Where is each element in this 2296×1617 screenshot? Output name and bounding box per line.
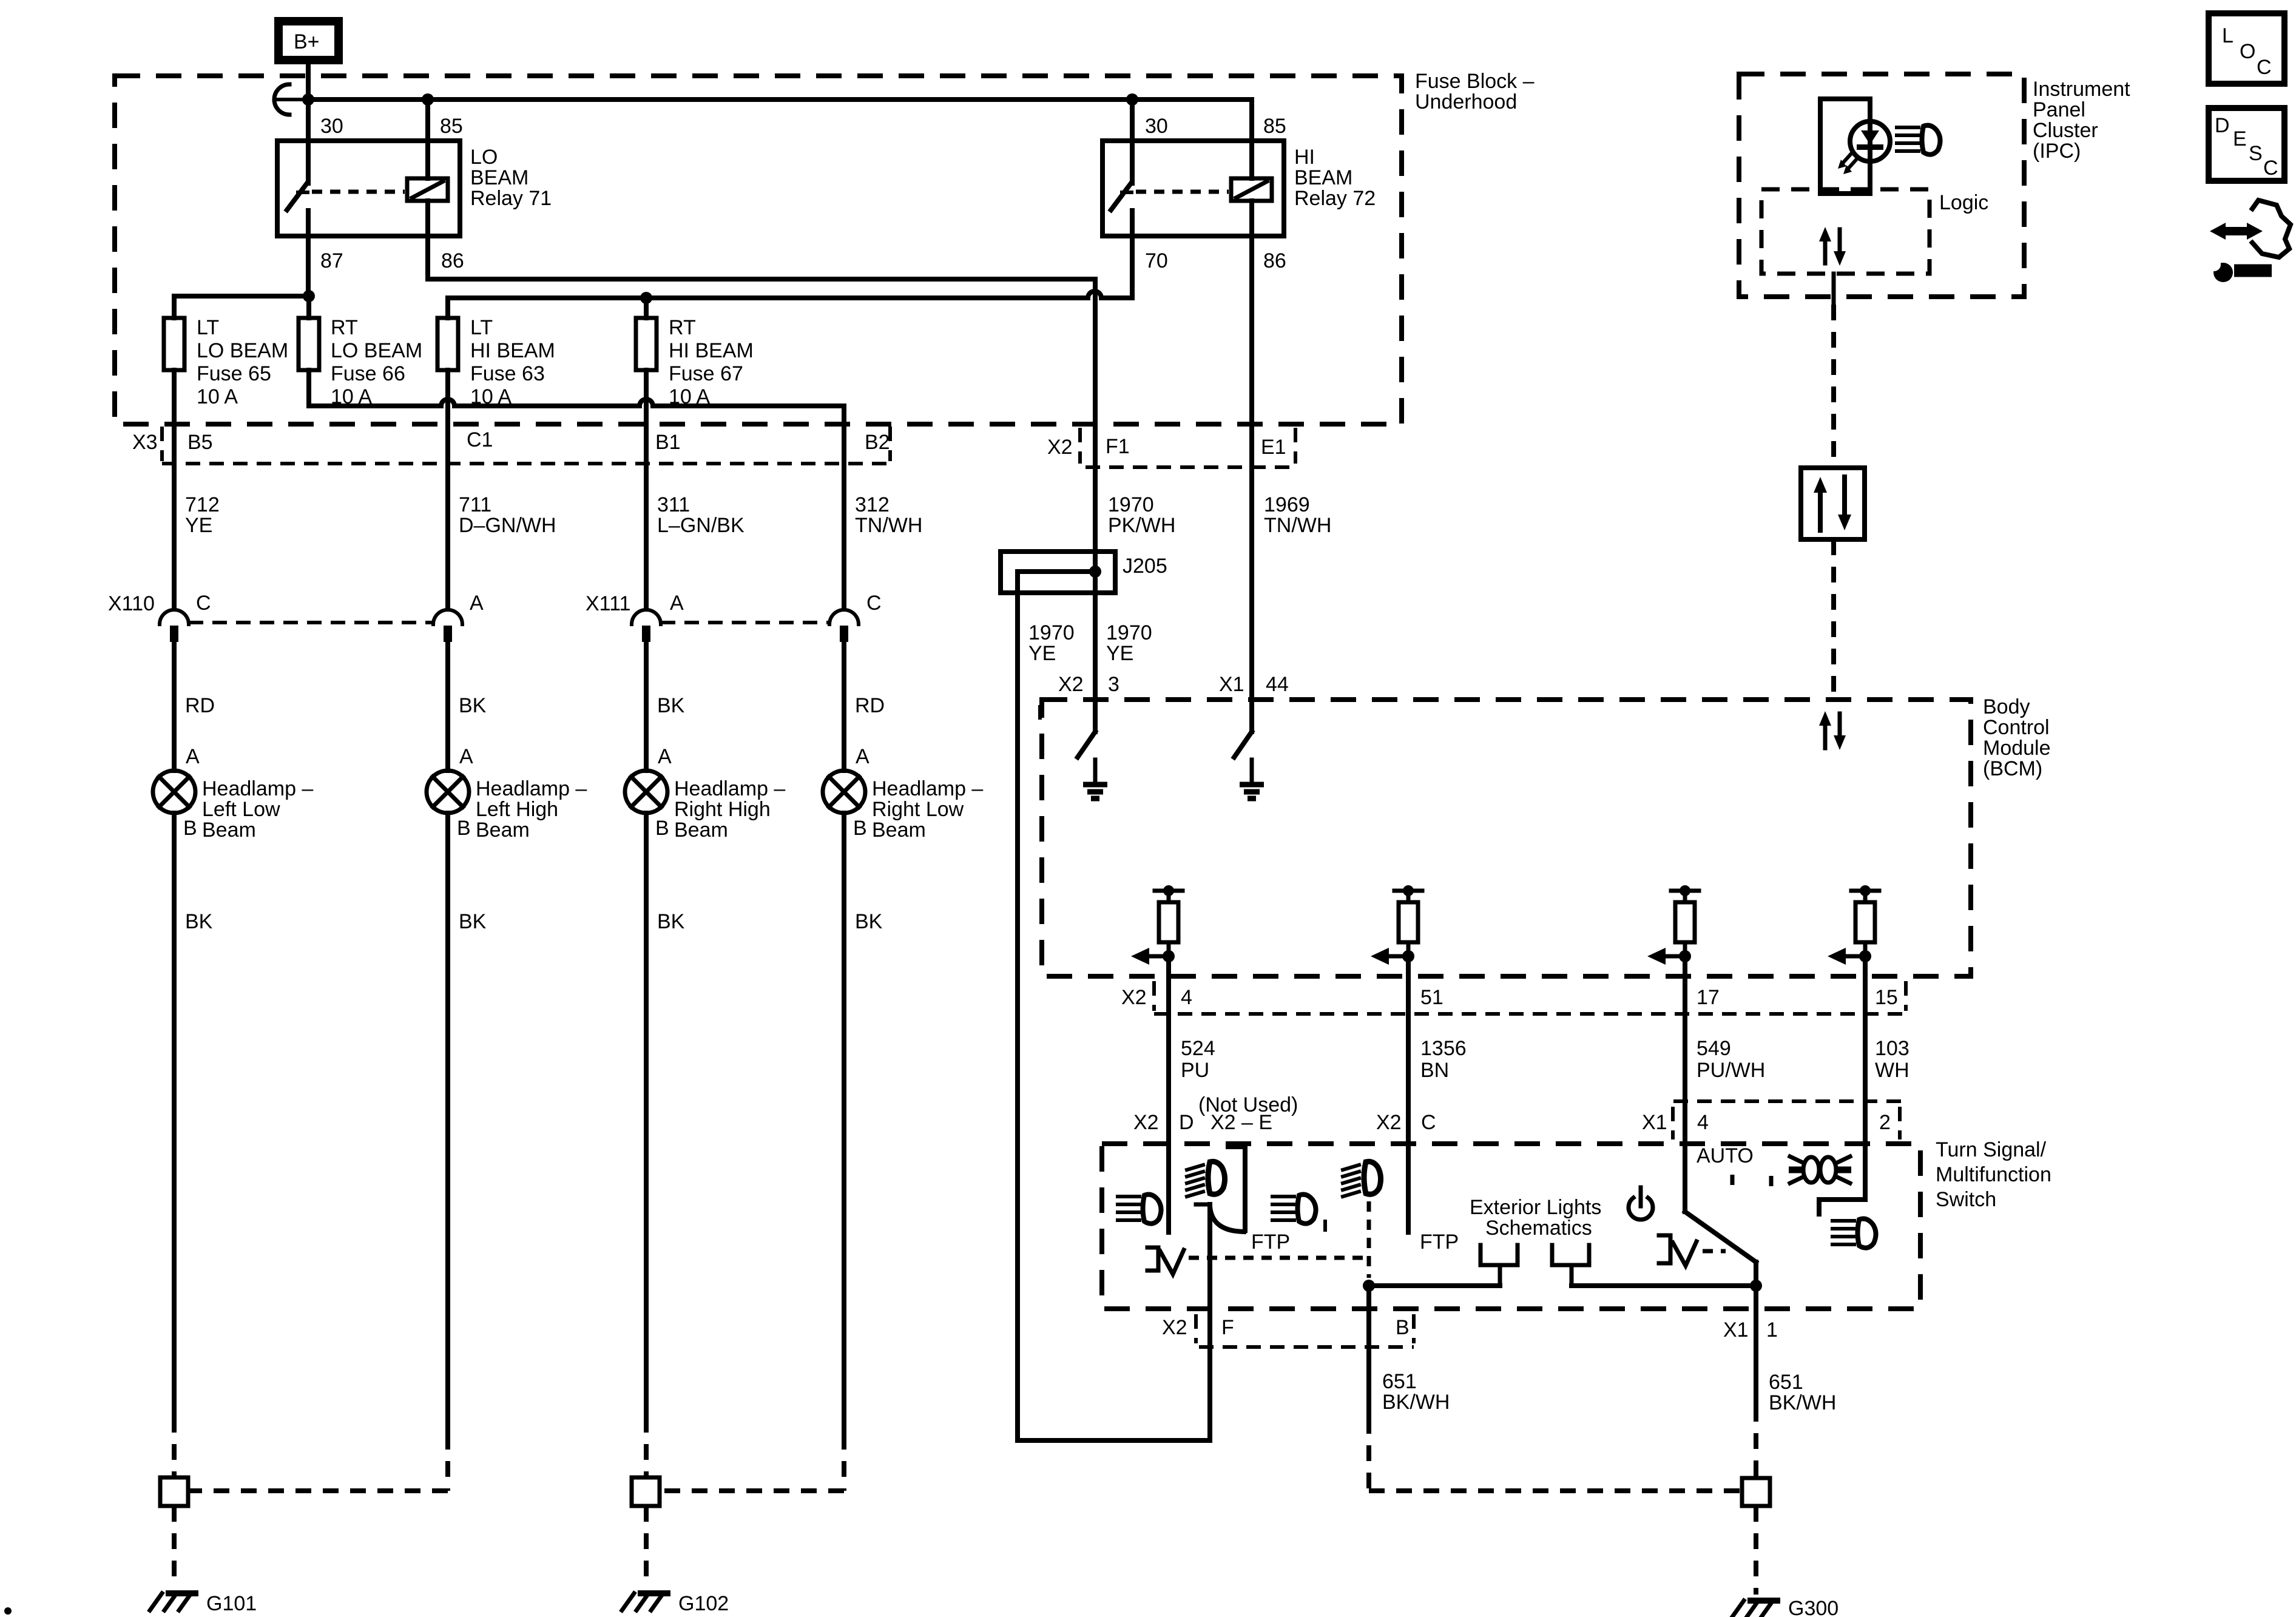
fuse 67 RT HI BEAM [636,318,657,370]
svg-text:RT: RT [331,316,358,339]
svg-text:15: 15 [1875,986,1898,1009]
svg-text:B+: B+ [294,30,320,53]
svg-text:X2: X2 [1121,986,1147,1009]
svg-text:Beam: Beam [872,819,926,842]
svg-text:E1: E1 [1261,436,1286,459]
switch low beam driver to ground [1078,700,1107,798]
resistor pull-up 524 [1131,885,1183,965]
svg-text:C1: C1 [467,428,493,451]
svg-text:A: A [856,745,869,768]
svg-text:F1: F1 [1106,435,1130,458]
LOC legend box [2209,13,2284,84]
svg-text:3: 3 [1108,673,1119,696]
svg-text:87: 87 [320,249,343,272]
svg-text:C: C [2257,56,2272,79]
resistor pull-up 1356 [1371,885,1422,965]
high beam telltale icon [1897,126,1940,155]
svg-text:PK/WH: PK/WH [1108,514,1175,537]
svg-text:BK: BK [459,910,487,933]
svg-text:4: 4 [1697,1111,1709,1134]
svg-text:TN/WH: TN/WH [855,514,922,537]
wire auto wiper diagonal [1685,1212,1756,1262]
svg-text:Fuse 63: Fuse 63 [470,362,545,385]
node relay71 85 junction [422,93,434,106]
svg-text:30: 30 [320,115,343,138]
svg-text:LO BEAM: LO BEAM [331,339,422,362]
svg-text:A: A [459,745,473,768]
svg-text:711: 711 [459,493,491,516]
wire headlamp feeds below connectors [172,642,177,771]
svg-text:Fuse 66: Fuse 66 [331,362,405,385]
svg-text:FTP: FTP [1251,1230,1290,1254]
svg-text:Panel: Panel [2033,98,2085,121]
svg-text:Headlamp –: Headlamp – [476,777,587,800]
svg-text:B: B [853,817,867,840]
icon turn signal flash [1789,1156,1851,1183]
svg-text:524: 524 [1181,1037,1215,1060]
svg-text:(BCM): (BCM) [1983,757,2042,780]
svg-text:1356: 1356 [1420,1037,1467,1060]
svg-text:Module: Module [1983,737,2051,760]
svg-text:Left High: Left High [476,798,558,821]
svg-text:X2: X2 [1133,1111,1159,1134]
svg-text:D: D [1179,1111,1194,1134]
svg-text:X1: X1 [1723,1318,1749,1342]
fuse 65 LT LO BEAM [164,318,184,370]
contact E not used [1228,1147,1245,1230]
wire relay72 86 to underhood X2 E1 / BCM X1 44 [1249,236,1254,700]
contact FTP flash-to-pass [1147,1247,1158,1271]
svg-text:BEAM: BEAM [1294,166,1352,189]
svg-text:B5: B5 [187,431,213,454]
fuse 66 RT LO BEAM [299,318,319,370]
headlamp Left High Beam [427,771,469,813]
wire fuse67 output [644,370,649,609]
svg-text:X2: X2 [1047,436,1073,459]
wire 524 PU [1166,956,1171,1232]
svg-text:(IPC): (IPC) [2033,140,2081,163]
svg-text:X2: X2 [1376,1111,1402,1134]
wire fuse63 output [445,370,450,609]
wire 103 WH contact and park lamp icon [1819,1197,1865,1202]
svg-text:712: 712 [185,493,220,516]
contact auto switch [1659,1235,1670,1263]
svg-text:Underhood: Underhood [1415,90,1517,113]
svg-text:311: 311 [657,493,690,516]
svg-text:RD: RD [185,694,215,717]
resistor pull-up 549 [1647,885,1699,965]
svg-text:RD: RD [855,694,885,717]
svg-text:30: 30 [1145,115,1168,138]
ground G300 [1742,1478,1770,1506]
svg-text:X3: X3 [132,431,158,454]
headlamp Right Low Beam [823,771,865,813]
svg-text:Headlamp –: Headlamp – [872,777,983,800]
svg-text:A: A [670,592,684,615]
svg-text:B: B [183,817,197,840]
svg-text:TN/WH: TN/WH [1264,514,1331,537]
connector row X2 4/51/17/15 [1152,981,1156,1011]
svg-text:Beam: Beam [202,819,256,842]
headlamp Left Low Beam [153,771,195,813]
svg-text:4: 4 [1181,986,1192,1009]
body control module dashed box [1042,700,1971,976]
svg-text:FTP: FTP [1420,1230,1459,1254]
relay LO BEAM Relay 71 [277,100,552,296]
svg-text:Left Low: Left Low [202,798,280,821]
node B+ junction [302,93,314,106]
fuse block underhood dashed box [115,76,1402,424]
svg-text:Multifunction: Multifunction [1936,1163,2051,1186]
svg-text:D–GN/WH: D–GN/WH [459,514,556,537]
wire relay72 70 to fuses 63/67 [1130,236,1135,298]
svg-text:PU/WH: PU/WH [1697,1059,1765,1082]
svg-text:BK: BK [855,910,883,933]
wire label 1970 YE left [1028,621,1075,665]
svg-text:Beam: Beam [476,819,530,842]
svg-text:B: B [1396,1316,1410,1339]
svg-text:X2: X2 [1058,673,1084,696]
svg-text:BEAM: BEAM [470,166,528,189]
wire 651 BK/WH from B [1366,1286,1371,1418]
relay HI BEAM Relay 72 [1102,100,1376,272]
svg-text:Right Low: Right Low [872,798,964,821]
wire serial data dashed [1831,305,1836,468]
svg-text:Beam: Beam [674,819,728,842]
svg-text:2: 2 [1879,1111,1891,1134]
wire 87 to fuses 65/66 [174,294,309,299]
wire fuse65 output [172,370,177,609]
ground G101 [172,1417,177,1477]
svg-text:Instrument: Instrument [2033,78,2130,101]
svg-text:651: 651 [1769,1371,1803,1394]
headlamp Right High Beam [625,771,667,813]
icon high beam position 2 [1343,1161,1381,1197]
wire label 1969 TN/WH [1264,493,1331,537]
wire 103 WH [1863,956,1868,1200]
svg-text:1970: 1970 [1106,621,1152,644]
resistor pull-up 103 [1828,885,1879,965]
svg-text:Relay 71: Relay 71 [470,187,552,210]
wire serial data dashed to BCM [1831,539,1836,697]
svg-text:BK: BK [657,694,685,717]
svg-text:HI: HI [1294,146,1315,169]
svg-text:AUTO: AUTO [1697,1144,1754,1167]
node relay72 30 junction [1126,93,1138,106]
wire label 311 L-GN/BK [657,493,745,537]
svg-text:1970: 1970 [1028,621,1075,644]
svg-text:G300: G300 [1788,1597,1838,1617]
svg-text:C: C [866,592,882,615]
svg-text:10 A: 10 A [197,385,238,408]
svg-text:Fuse Block –: Fuse Block – [1415,70,1535,93]
svg-text:G101: G101 [206,1592,257,1615]
node switch output X1 1 [1750,1280,1762,1292]
icon power mode [1629,1187,1653,1220]
wire 1356 BN [1406,956,1411,1232]
off-page exterior lights schematics [1470,1196,1601,1240]
svg-text:WH: WH [1875,1059,1909,1082]
svg-text:RT: RT [669,316,696,339]
icon low beam position 1 [1118,1195,1161,1224]
svg-text:F: F [1221,1316,1234,1339]
wire B+ drop [306,64,311,100]
svg-text:BK: BK [459,694,487,717]
battery B+ terminal box [279,21,339,60]
svg-text:S: S [2249,142,2263,165]
svg-text:X2 – E: X2 – E [1210,1111,1272,1134]
wire headlamp ground drops [172,813,177,1417]
svg-text:YE: YE [185,514,212,537]
instrument panel cluster dashed box [1739,74,2024,297]
connector X111 [632,610,661,642]
connector X2 underhood row F1 E1 [1078,428,1082,464]
wire label 712 YE [185,493,220,537]
node headlamp switch output B [1363,1280,1375,1292]
svg-text:HI BEAM: HI BEAM [669,339,754,362]
wire F inside switch [1207,1204,1212,1440]
svg-text:J205: J205 [1123,555,1167,578]
serial data arrows in logic [1819,227,1846,266]
wire label 312 TN/WH [855,493,922,537]
icon low beam position 2 [1272,1195,1316,1224]
svg-text:X1: X1 [1642,1111,1667,1134]
svg-text:A: A [186,745,200,768]
splice clip symbol [274,84,289,115]
wire logic stub [1832,274,1836,305]
svg-text:Logic: Logic [1939,191,1988,214]
svg-text:1: 1 [1766,1318,1778,1342]
dimmer wiper arc [1196,1203,1209,1207]
wire 651 BK/WH from X1 1 [1754,1286,1758,1406]
svg-text:B: B [457,817,471,840]
svg-text:X110: X110 [108,592,155,615]
wire 549 PU/WH [1683,956,1687,1212]
svg-text:549: 549 [1697,1037,1731,1060]
svg-text:1970: 1970 [1108,493,1154,516]
wire label 711 D-GN/WH [459,493,556,537]
svg-text:Exterior Lights: Exterior Lights [1470,1196,1601,1219]
DESC legend box [2209,108,2284,181]
svg-text:B2: B2 [865,431,890,454]
svg-text:312: 312 [855,493,890,516]
svg-text:LO: LO [470,146,498,169]
svg-text:C: C [1421,1111,1436,1134]
splice J205 [1001,552,1167,593]
wire label 1970 PK/WH [1108,493,1175,537]
svg-text:1969: 1969 [1264,493,1310,516]
svg-text:Body: Body [1983,695,2030,718]
svg-text:Turn Signal/: Turn Signal/ [1936,1138,2047,1161]
svg-text:70: 70 [1145,249,1168,272]
serial data arrows in BCM [1819,711,1846,750]
svg-text:O: O [2240,40,2255,63]
svg-text:A: A [470,592,484,615]
wire label 1970 YE right [1106,621,1152,665]
svg-text:Control: Control [1983,716,2050,739]
svg-text:BK: BK [657,910,685,933]
svg-text:LT: LT [470,316,493,339]
svg-text:PU: PU [1181,1059,1209,1082]
svg-text:X2: X2 [1162,1316,1187,1339]
node fuse67 feed [640,292,652,304]
serial data link box [1801,468,1865,539]
switch high beam driver to ground [1234,700,1264,798]
svg-text:85: 85 [440,115,463,138]
label fuse block [1415,70,1535,113]
svg-text:85: 85 [1263,115,1286,138]
svg-text:LT: LT [197,316,219,339]
svg-text:651: 651 [1382,1370,1417,1393]
wire FTP dashed contact [1367,1201,1371,1278]
svg-text:Right High: Right High [674,798,771,821]
svg-text:LO BEAM: LO BEAM [197,339,288,362]
svg-text:B: B [655,817,669,840]
svg-text:Headlamp –: Headlamp – [202,777,313,800]
svg-text:Schematics: Schematics [1485,1217,1592,1240]
wire to exterior lights fork 1 [1369,1283,1500,1288]
svg-text:Cluster: Cluster [2033,119,2098,142]
svg-text:86: 86 [1263,249,1286,272]
svg-text:D: D [2215,114,2230,137]
svg-text:Fuse 67: Fuse 67 [669,362,743,385]
svg-text:G102: G102 [678,1592,729,1615]
svg-text:BK/WH: BK/WH [1382,1391,1450,1414]
node relay71 87 junction [303,290,315,302]
svg-text:Relay 72: Relay 72 [1294,187,1376,210]
svg-text:HI BEAM: HI BEAM [470,339,555,362]
svg-text:B1: B1 [655,431,681,454]
wire fork 2 to auto contact [1552,1245,1589,1286]
svg-text:X1: X1 [1219,673,1244,696]
svg-text:E: E [2233,127,2247,150]
wire fuse66 output to B2 [306,370,311,406]
turn signal multifunction switch dashed box [1102,1144,1920,1309]
svg-text:X111: X111 [586,592,630,615]
svg-text:A: A [658,745,672,768]
svg-text:Headlamp –: Headlamp – [674,777,785,800]
svg-text:Fuse 65: Fuse 65 [197,362,271,385]
svg-text:Switch: Switch [1936,1188,1996,1211]
svg-text:YE: YE [1106,642,1133,665]
connector view icon (arrow and wrench) [2207,200,2291,282]
svg-text:51: 51 [1420,986,1443,1009]
connector X3 row bracket [160,427,164,461]
wire B+ bus [308,97,1252,102]
svg-text:BN: BN [1420,1059,1449,1082]
svg-text:86: 86 [441,249,464,272]
page period mark [4,1607,12,1615]
svg-text:44: 44 [1266,673,1289,696]
svg-text:L: L [2222,24,2234,47]
ground G102 [644,1417,649,1477]
connector row X2 F / B [1194,1314,1198,1343]
wire 1970 YE long run [1015,572,1020,1440]
logic dashed box [1761,189,1930,274]
svg-text:L–GN/BK: L–GN/BK [657,514,745,537]
wire relay71 86 to underhood X2 F1 [425,236,430,279]
svg-text:C: C [2263,157,2278,180]
svg-text:103: 103 [1875,1037,1909,1060]
icon high beam position 1 [1187,1161,1225,1197]
svg-text:C: C [196,592,211,615]
indicator LED block [1820,99,1890,194]
svg-text:BK/WH: BK/WH [1769,1391,1836,1414]
svg-text:17: 17 [1697,986,1720,1009]
connector X110 [160,610,189,642]
svg-text:BK: BK [185,910,213,933]
svg-text:YE: YE [1028,642,1056,665]
fuse 63 LT HI BEAM [437,318,458,370]
